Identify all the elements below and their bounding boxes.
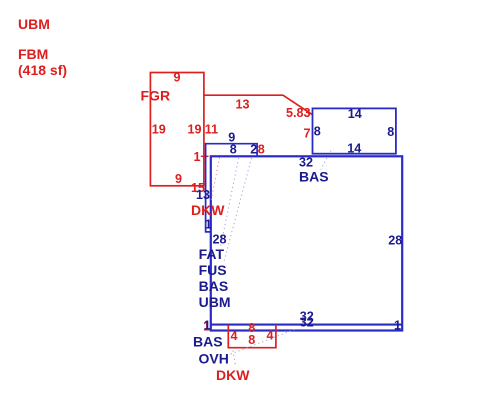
- svg-text:FBM: FBM: [18, 46, 48, 62]
- svg-text:1: 1: [205, 218, 212, 232]
- svg-text:13: 13: [196, 188, 210, 202]
- svg-text:4: 4: [231, 329, 238, 343]
- svg-text:BAS: BAS: [199, 278, 229, 294]
- red wall: 13 horizontal + 5.83 diagonal: [204, 95, 312, 114]
- svg-text:13: 13: [236, 98, 250, 112]
- svg-text:BAS: BAS: [299, 169, 329, 185]
- DKW strip outline (top): [206, 144, 258, 232]
- svg-text:28: 28: [388, 234, 402, 248]
- svg-text:8: 8: [258, 143, 265, 157]
- leader red: DKW top label to strip: [211, 158, 220, 203]
- garage FGR outline: [150, 73, 204, 186]
- leader blue: FUS label up: [224, 158, 252, 262]
- svg-text:8: 8: [230, 142, 237, 156]
- svg-text:8: 8: [387, 125, 394, 139]
- svg-text:28: 28: [213, 233, 227, 247]
- BAS bottom inner line (1ft overhang): [211, 324, 402, 326]
- svg-text:UBM: UBM: [18, 16, 50, 32]
- red DKW/OVH rect bottom: [228, 325, 276, 348]
- leader red: DKW bottom label to red rect: [233, 351, 236, 366]
- svg-text:OVH: OVH: [199, 350, 229, 366]
- svg-text:32: 32: [300, 316, 314, 330]
- svg-text:8: 8: [314, 125, 321, 139]
- svg-text:FGR: FGR: [141, 87, 171, 103]
- leader blue: OVH label to bottom strip: [230, 330, 295, 355]
- svg-text:14: 14: [348, 107, 362, 121]
- svg-text:7: 7: [304, 127, 311, 141]
- svg-text:1: 1: [204, 319, 211, 333]
- svg-text:11: 11: [205, 123, 218, 137]
- svg-text:(418 sf): (418 sf): [18, 62, 67, 78]
- svg-text:BAS: BAS: [193, 333, 223, 349]
- svg-text:9: 9: [174, 71, 181, 85]
- svg-text:4: 4: [267, 329, 274, 343]
- svg-text:UBM: UBM: [199, 294, 231, 310]
- svg-text:DKW: DKW: [191, 202, 225, 218]
- svg-text:9: 9: [175, 172, 182, 186]
- svg-text:FUS: FUS: [199, 262, 227, 278]
- svg-text:2: 2: [250, 143, 257, 157]
- bump-out rect 14x8: [313, 108, 396, 153]
- svg-text:19: 19: [152, 123, 166, 137]
- svg-text:14: 14: [347, 141, 361, 155]
- leader blue: FAT label up to strip: [221, 158, 239, 247]
- leader blue: BAS top label to bump: [321, 151, 331, 170]
- red tick 1ft near strip: [201, 155, 209, 157]
- main BAS rectangle: [211, 156, 402, 330]
- svg-text:19: 19: [187, 123, 201, 137]
- svg-text:FAT: FAT: [199, 246, 225, 262]
- svg-text:32: 32: [299, 155, 313, 169]
- svg-text:5.83: 5.83: [286, 106, 311, 120]
- svg-text:DKW: DKW: [216, 367, 250, 383]
- svg-text:1: 1: [394, 318, 401, 332]
- svg-text:1: 1: [194, 150, 201, 164]
